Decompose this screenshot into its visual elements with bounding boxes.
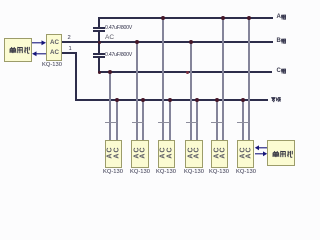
stray dot on phase C: [186, 71, 189, 74]
M5 pin mark: [211, 122, 223, 123]
label KQ-130 M6: [233, 170, 259, 176]
label KQ-130 M3: [153, 170, 179, 176]
arrow U7 to M6 (TX): [254, 144, 268, 152]
arrow U0 to U1 (TX): [31, 39, 47, 47]
net label AC on phase B: [105, 35, 114, 42]
wire: phase A bus: [99, 17, 273, 19]
microcontroller box U0 (top-left 单片机): [4, 38, 32, 62]
M4 pin mark: [186, 122, 198, 123]
capacitor C1 value label: [105, 26, 132, 31]
KQ-130 module M5: [211, 140, 228, 168]
wire: phase B to C2: [98, 42, 100, 54]
junction dots on neutral: [115, 98, 119, 102]
KQ-130 module M1: [105, 140, 122, 168]
node label 零线 (neutral): [271, 96, 281, 103]
M1 pin mark: [105, 122, 117, 123]
KQ-130 module M6: [237, 140, 254, 168]
capacitor C2 0.47uF/800V plates: [93, 53, 105, 55]
node label A相: [277, 14, 281, 20]
label KQ-130 for U1: [42, 63, 62, 69]
microcontroller box U7 (bottom-right 单片机): [267, 140, 295, 166]
module M3 wires: left to phase A, right to neutral: [162, 17, 164, 140]
wire: C1 to phase B: [98, 31, 100, 43]
junction dot on phase C (module M1): [108, 70, 112, 74]
label KQ-130 M4: [181, 170, 207, 176]
junction dot on phase C at capacitor chain corner: [98, 71, 101, 74]
module M4 wires: left to phase B, right to neutral: [190, 41, 192, 140]
wire: capacitor chain segment A to C1: [98, 17, 100, 28]
wire: U1 pin1 horizontal: [62, 52, 77, 54]
KQ-130 module M4: [185, 140, 203, 168]
pin label 1: [69, 47, 72, 53]
wire: phase B bus: [62, 41, 273, 43]
KQ-130 coupling module U1 (top-left): [46, 34, 62, 61]
node label B相: [277, 38, 281, 44]
wire: C2 to phase C: [98, 57, 100, 73]
label KQ-130 M2: [127, 170, 153, 176]
wire: U1 pin1 vertical to neutral: [75, 52, 77, 101]
pin label 2: [68, 36, 71, 42]
KQ-130 module M3: [158, 140, 175, 168]
module M2 wires: left to phase B, right to neutral: [136, 41, 138, 140]
junction dots on phase A: [161, 16, 165, 20]
capacitor C2 value label: [105, 53, 132, 58]
junction dot capacitor chain at phase B: [98, 41, 101, 44]
KQ-130 module M2: [131, 140, 149, 168]
arrow U1 to U0 (RX): [31, 50, 47, 58]
wire: neutral bus: [75, 99, 268, 101]
capacitor C1 0.47uF/800V plates: [93, 27, 105, 29]
junction dots on phase B: [135, 40, 139, 44]
module M5 wires: left to neutral, right to phase A: [216, 99, 218, 140]
M2 pin mark: [132, 122, 144, 123]
label KQ-130 M1: [100, 170, 126, 176]
module M1 wires: left wire to phase C, right wire to neutral: [109, 71, 111, 140]
label KQ-130 M5: [206, 170, 232, 176]
M6 pin mark: [237, 122, 249, 123]
node label C相: [277, 68, 281, 74]
module M6 wires: left to neutral, right to phase A: [242, 99, 244, 140]
wire: phase C bus: [99, 71, 272, 73]
M3 pin mark: [158, 122, 170, 123]
arrow M6 to U7 (RX): [254, 150, 268, 158]
